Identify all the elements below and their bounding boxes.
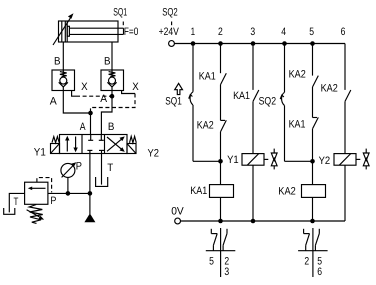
svg-text:P: P — [76, 160, 82, 172]
svg-text:B: B — [108, 121, 115, 133]
wire node A to valve port A — [90, 113, 92, 135]
svg-text:Y2: Y2 — [148, 147, 160, 159]
solenoid Y1 symbol — [51, 137, 60, 154]
KA2 contact map — [298, 228, 328, 277]
svg-text:KA1: KA1 — [199, 71, 216, 83]
node Y2 — [310, 159, 315, 164]
pilot line X of check valve 1 — [72, 91, 112, 97]
node gauge junction — [66, 191, 71, 196]
node rail 3 — [251, 41, 256, 46]
cylinder body — [59, 21, 119, 42]
pilot check valve 2 — [101, 70, 124, 91]
svg-text:X: X — [132, 81, 139, 93]
node rail 2 — [218, 41, 223, 46]
svg-text:5: 5 — [309, 26, 314, 38]
contact KA1 NO branch3 — [253, 44, 259, 155]
valve right cell crossed arrows — [107, 136, 125, 152]
relay coil KA2 — [302, 185, 326, 221]
wire valve T port down — [101, 154, 103, 185]
wire cylinder right port to check valve 2 — [111, 42, 113, 70]
wire check valve 2 outlet to valve port B — [101, 91, 112, 135]
svg-text:SQ1: SQ1 — [113, 7, 127, 19]
svg-text:KA2: KA2 — [197, 120, 214, 132]
wire branch2 down — [220, 161, 222, 184]
relief valve pilot line — [37, 178, 52, 193]
svg-text:A: A — [50, 96, 58, 108]
svg-text:4: 4 — [281, 26, 286, 38]
svg-text:SQ2: SQ2 — [162, 7, 178, 19]
node Y1 — [218, 159, 223, 164]
pilot check valve 1 — [52, 70, 75, 91]
svg-text:2: 2 — [218, 26, 223, 38]
tank T of valve — [96, 177, 108, 186]
wire branch5 down — [312, 161, 314, 184]
svg-text:6: 6 — [317, 266, 322, 278]
contact KA2 NO branch6 — [345, 44, 351, 155]
wire relief to tank — [9, 193, 24, 212]
relay coil KA1 — [210, 185, 234, 221]
contact KA1 NC branch5 — [313, 117, 319, 161]
svg-text:3: 3 — [250, 26, 255, 38]
actuated symbol SQ1 — [175, 83, 183, 94]
limit switch SQ1 contact — [189, 44, 193, 162]
svg-text:Y1: Y1 — [227, 154, 239, 166]
svg-text:T: T — [14, 196, 19, 208]
contact KA1 NO branch2 — [221, 44, 227, 121]
node rail bottom 5 — [310, 219, 315, 224]
node rail 4 — [282, 41, 287, 46]
wire 0V rail — [181, 220, 346, 222]
svg-text:KA2: KA2 — [278, 185, 296, 197]
directional valve 4/3 body — [60, 135, 128, 154]
svg-text:KA1: KA1 — [190, 185, 207, 197]
valve symbol after Y2 — [363, 149, 369, 170]
wire branch4 to Y2 node — [285, 160, 313, 162]
svg-text:A: A — [80, 121, 86, 133]
node P supply junction — [88, 191, 93, 196]
KA1 contact map — [206, 228, 236, 277]
wire check valve 1 outlet to node A — [63, 91, 90, 114]
svg-text:F=0: F=0 — [124, 26, 138, 38]
svg-text:T: T — [107, 162, 113, 174]
solenoid coil Y1 — [242, 154, 268, 221]
svg-text:1: 1 — [191, 26, 196, 38]
node A junction — [88, 111, 93, 116]
piston rod — [69, 28, 123, 34]
node rail 5 — [310, 41, 315, 46]
limit switch SQ2 contact — [280, 44, 284, 162]
svg-text:A: A — [100, 93, 108, 105]
wire valve P port down — [89, 154, 91, 194]
svg-text:SQ1: SQ1 — [165, 96, 182, 108]
valve center cell closed ports — [87, 135, 104, 154]
contact KA2 NO branch5 — [313, 44, 319, 118]
node rail bottom 2 — [218, 219, 223, 224]
wire branch1 to Y1 node — [193, 160, 221, 162]
label SQ1 position — [113, 7, 127, 26]
cushion adjust arrow — [53, 13, 74, 45]
contact KA2 NC branch2 — [221, 120, 227, 161]
svg-text:0V: 0V — [171, 206, 184, 218]
svg-text:X: X — [81, 81, 88, 93]
terminal 0V — [175, 218, 181, 224]
svg-text:KA1: KA1 — [289, 118, 306, 130]
node rail bottom 3 — [251, 219, 256, 224]
solenoid coil Y2 — [334, 154, 360, 221]
wire +24V rail — [174, 43, 345, 45]
svg-text:B: B — [104, 55, 111, 67]
wire to pressure source — [89, 193, 91, 214]
terminal +24V — [169, 41, 175, 47]
svg-text:2: 2 — [304, 255, 309, 267]
svg-text:B: B — [54, 55, 61, 67]
valve symbol after Y1 — [271, 149, 277, 170]
label SQ2 position — [162, 7, 178, 26]
wire cylinder left port to check valve 1 — [62, 42, 64, 70]
wire supply manifold — [48, 192, 90, 194]
pilot line X of check valve 2 — [91, 91, 136, 114]
svg-text:SQ2: SQ2 — [259, 96, 277, 108]
svg-text:P: P — [50, 195, 56, 207]
svg-text:KA2: KA2 — [289, 68, 306, 80]
solenoid Y2 symbol — [127, 136, 136, 153]
svg-text:3: 3 — [224, 266, 229, 278]
pressure source triangle — [84, 213, 95, 222]
tank T relief — [4, 208, 15, 214]
valve left cell arrows — [65, 136, 78, 152]
svg-text:KA1: KA1 — [233, 90, 250, 102]
node rail 1 — [191, 41, 196, 46]
svg-text:Y1: Y1 — [34, 147, 46, 159]
svg-text:+24V: +24V — [159, 26, 180, 38]
svg-text:KA2: KA2 — [321, 83, 338, 95]
svg-text:6: 6 — [341, 26, 346, 38]
relief valve spring — [27, 205, 44, 224]
relief valve — [25, 182, 48, 204]
svg-text:5: 5 — [209, 255, 214, 267]
pressure gauge — [61, 162, 76, 193]
svg-text:Y2: Y2 — [319, 155, 331, 167]
node X2 junction — [110, 94, 115, 99]
